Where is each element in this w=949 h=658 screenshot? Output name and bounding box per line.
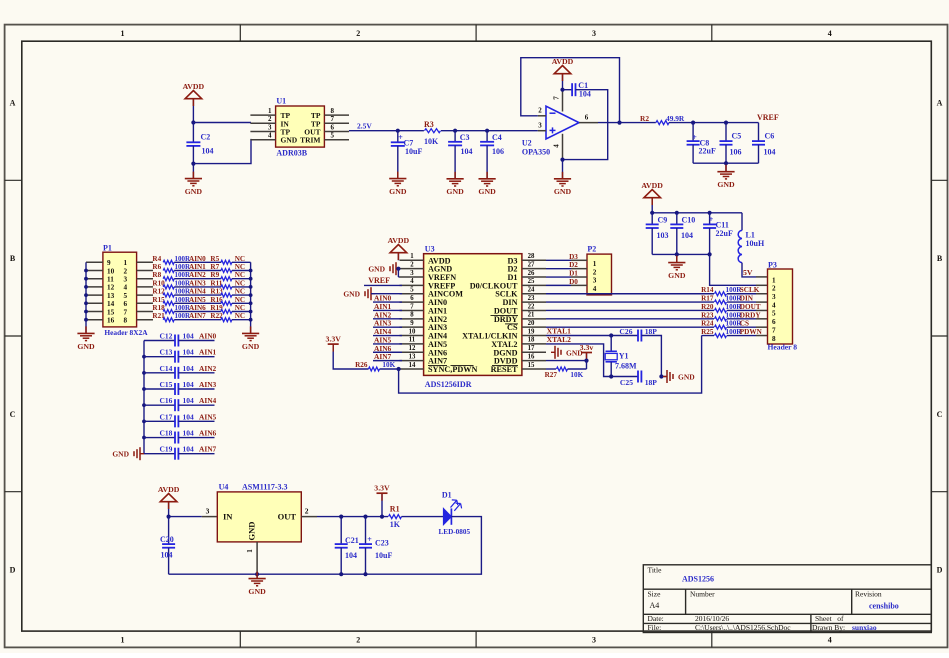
- svg-text:104: 104: [202, 147, 214, 156]
- svg-text:A: A: [10, 98, 16, 107]
- svg-text:8: 8: [772, 335, 776, 343]
- svg-text:GND: GND: [242, 342, 260, 351]
- capacitor C7 10uF: [397, 131, 399, 143]
- node U4 input junction: [167, 515, 171, 519]
- power port 3.3v at U3 DVDD: [581, 352, 592, 354]
- svg-text:C23: C23: [375, 539, 389, 548]
- svg-text:C: C: [937, 410, 943, 419]
- svg-text:Y1: Y1: [619, 351, 629, 360]
- svg-text:10K: 10K: [424, 137, 439, 146]
- U1 pin 3 (TP): [250, 131, 275, 133]
- svg-text:C19: C19: [160, 445, 173, 454]
- power port AVDD (filter): [644, 190, 661, 198]
- svg-text:ADS1256IDR: ADS1256IDR: [425, 380, 472, 389]
- svg-text:11: 11: [409, 337, 416, 344]
- P1 pin 12 / pin 4: [86, 286, 103, 288]
- svg-text:18P: 18P: [645, 327, 658, 336]
- wire U4 OUT rail: [317, 516, 388, 518]
- svg-text:2.5V: 2.5V: [357, 122, 372, 131]
- svg-text:B: B: [937, 254, 943, 263]
- U3 pin 8 (AIN2): [400, 318, 424, 320]
- U3 pin 12 (AIN6): [400, 351, 424, 353]
- wire U3 pin26 to P2 pin3: [546, 276, 571, 278]
- svg-text:Revision: Revision: [855, 590, 882, 599]
- node U2 output junction: [617, 121, 621, 125]
- svg-text:11: 11: [107, 276, 114, 284]
- ground GND below U2: [562, 160, 564, 179]
- svg-text:3.3V: 3.3V: [374, 484, 390, 493]
- svg-text:C10: C10: [682, 216, 696, 225]
- svg-text:7: 7: [410, 303, 414, 310]
- svg-text:R23: R23: [701, 311, 714, 319]
- svg-text:18: 18: [528, 337, 535, 344]
- node U2 pin4 junction: [560, 158, 564, 162]
- wire R2 to VREF rail: [669, 122, 693, 124]
- wire AIN6 to U3 pin12: [373, 351, 402, 353]
- title block: [643, 565, 931, 633]
- svg-text:XTAL2: XTAL2: [547, 335, 572, 344]
- svg-text:GND: GND: [717, 180, 735, 189]
- U3 pin 4 (VREFP): [400, 284, 424, 286]
- svg-text:10: 10: [409, 328, 416, 335]
- U3 pin 2 (AGND): [400, 268, 424, 270]
- svg-text:4: 4: [828, 636, 832, 645]
- svg-text:103: 103: [657, 231, 669, 240]
- svg-text:104: 104: [764, 148, 776, 157]
- U3 pin 5 (AINCOM): [400, 293, 424, 295]
- U3 pin 1 (AVDD): [400, 259, 424, 261]
- wire U3 pin28 to P2 pin1: [546, 259, 571, 261]
- power port AVDD (U4 input): [160, 494, 177, 502]
- svg-text:D1: D1: [442, 491, 452, 500]
- ground GND below U4: [256, 574, 258, 578]
- svg-text:GND: GND: [247, 522, 257, 541]
- op IC U1 ADR03B: [276, 106, 325, 147]
- U3 pin 24 (SCLK): [522, 293, 546, 295]
- U2 pin 3 non-inverting input: [538, 130, 546, 132]
- svg-text:R3: R3: [424, 120, 434, 129]
- svg-text:6: 6: [124, 300, 128, 308]
- svg-text:C4: C4: [492, 133, 502, 142]
- svg-text:15: 15: [107, 308, 115, 316]
- svg-text:10K: 10K: [570, 371, 583, 379]
- U3 DRDY overline: [491, 314, 519, 316]
- svg-text:C15: C15: [160, 380, 173, 389]
- ground GND at U3 pin17: [554, 346, 556, 359]
- svg-text:D2: D2: [569, 261, 578, 269]
- U3 CS overline: [505, 323, 518, 325]
- capacitor C23 10uF: [365, 517, 367, 545]
- wire AIN2 node: [174, 278, 221, 280]
- svg-text:3: 3: [593, 277, 597, 285]
- wire SYNC,PDWN bus to R25: [399, 336, 702, 394]
- node ground bus C11: [708, 252, 712, 256]
- svg-text:104: 104: [183, 348, 195, 357]
- capacitor C13 104: [144, 356, 175, 358]
- capacitor C20 104: [168, 517, 170, 545]
- wire DOUT row: [546, 309, 714, 311]
- U3 pin 13 (AIN7): [400, 360, 424, 362]
- P1 pin 13 / pin 5: [86, 294, 103, 296]
- svg-text:7: 7: [772, 326, 776, 334]
- svg-text:sunxiao: sunxiao: [852, 623, 877, 632]
- node U3 pin2 junction: [396, 267, 400, 271]
- svg-text:C6: C6: [765, 132, 775, 141]
- svg-text:C16: C16: [160, 396, 173, 405]
- svg-text:P2: P2: [587, 245, 596, 254]
- node C7 junction: [396, 129, 400, 133]
- svg-text:Sheet of: Sheet of: [815, 614, 844, 623]
- wire AIN5 node: [174, 302, 221, 304]
- svg-text:4: 4: [593, 285, 597, 293]
- svg-text:GND: GND: [678, 373, 695, 382]
- wire R20 to P3: [727, 309, 756, 311]
- svg-text:2016/10/26: 2016/10/26: [695, 614, 729, 623]
- wire AIN2 to U3 pin8: [373, 318, 402, 320]
- svg-text:AIN7: AIN7: [374, 352, 392, 361]
- ground GND at U3 pin5: [370, 287, 372, 300]
- wire P1 left ground bus: [85, 262, 87, 333]
- node C25 right junction: [659, 374, 663, 378]
- wire AIN0 to U3 pin6: [373, 301, 402, 303]
- svg-text:A4: A4: [650, 601, 660, 610]
- node ground bus junction: [724, 161, 728, 165]
- svg-text:D: D: [937, 566, 943, 575]
- P1 pin 10 / pin 2: [86, 270, 103, 272]
- svg-text:106: 106: [492, 147, 504, 156]
- svg-text:7: 7: [124, 308, 128, 316]
- svg-text:1: 1: [121, 29, 125, 38]
- svg-text:7: 7: [553, 96, 561, 100]
- svg-text:C2: C2: [201, 133, 211, 142]
- U3 pin 18 (XTAL2): [522, 343, 546, 345]
- capacitor C17 104: [144, 420, 175, 422]
- wire R1 to LED: [402, 516, 444, 518]
- capacitor C9 103: [651, 213, 653, 225]
- svg-text:P1: P1: [103, 244, 112, 253]
- P2 pin 1: [571, 259, 587, 261]
- power port 3.3V (U4 output): [377, 492, 388, 494]
- svg-text:2: 2: [772, 285, 776, 293]
- svg-text:P3: P3: [768, 260, 777, 269]
- svg-text:1: 1: [268, 107, 272, 115]
- U2 pin 7 V+: [562, 90, 564, 112]
- wire AVDD to U2 pin7: [562, 73, 564, 90]
- wire R14 to P3: [727, 293, 756, 295]
- svg-text:R14: R14: [701, 286, 714, 294]
- svg-text:Number: Number: [690, 590, 715, 599]
- svg-text:+: +: [398, 133, 403, 142]
- U4 pin 2 (OUT): [301, 516, 317, 518]
- node C21 bottom: [339, 572, 343, 576]
- svg-text:16: 16: [528, 353, 535, 360]
- P2 pin 3: [571, 276, 587, 278]
- U4 pin 1 (GND): [256, 542, 258, 574]
- svg-text:104: 104: [345, 551, 357, 560]
- node U1-IN junction: [191, 120, 195, 124]
- crystal Y1 7.68M: [610, 336, 612, 352]
- svg-text:C26: C26: [619, 327, 632, 336]
- capacitor C2: [192, 123, 194, 143]
- capacitor C16 104: [144, 404, 175, 406]
- U1 pin 2 (IN): [250, 122, 275, 124]
- node crystal bottom junction: [609, 374, 613, 378]
- capacitor C4: [486, 131, 488, 142]
- capacitor C3: [454, 131, 456, 142]
- svg-text:21: 21: [528, 312, 535, 319]
- svg-text:10uH: 10uH: [746, 239, 765, 248]
- svg-text:D0: D0: [569, 278, 578, 286]
- P1 pin 15 / pin 7: [86, 311, 103, 313]
- wire U3 pin2 to pin3: [397, 269, 399, 277]
- svg-text:AVDD: AVDD: [388, 236, 410, 245]
- svg-text:2: 2: [305, 507, 309, 516]
- svg-text:3: 3: [592, 636, 596, 645]
- svg-text:GND: GND: [668, 271, 686, 280]
- svg-text:C5: C5: [732, 132, 742, 141]
- svg-text:GND: GND: [343, 290, 360, 299]
- svg-text:49.9R: 49.9R: [666, 114, 685, 123]
- svg-text:104: 104: [183, 429, 195, 438]
- svg-text:5: 5: [410, 287, 414, 294]
- svg-text:104: 104: [681, 231, 693, 240]
- wire AIN1 node: [174, 270, 221, 272]
- node U3 pin14 junction: [397, 367, 401, 371]
- U1 pin 7 (TP): [324, 122, 349, 124]
- capacitor C25 18P: [637, 371, 639, 383]
- node DVDD junction: [584, 359, 588, 363]
- svg-text:9: 9: [107, 259, 111, 267]
- wire U2 output to R2: [598, 122, 656, 124]
- wire CS row: [546, 326, 714, 328]
- ground GND below C7: [397, 172, 399, 179]
- wire AVDD filter ground bus: [652, 253, 709, 255]
- U3 pin 22 (DOUT): [522, 309, 546, 311]
- wire R22 to bus: [232, 319, 251, 321]
- svg-text:IN: IN: [223, 512, 233, 522]
- U3 pin 15 (RESET): [522, 368, 546, 370]
- svg-text:28: 28: [528, 253, 535, 260]
- svg-text:GND: GND: [185, 187, 203, 196]
- svg-text:U2: U2: [522, 139, 532, 148]
- svg-text:ASM1117-3.3: ASM1117-3.3: [242, 483, 288, 492]
- svg-text:AIN1: AIN1: [199, 348, 217, 357]
- svg-text:AVDD: AVDD: [641, 181, 663, 190]
- power port AVDD (U3): [390, 245, 407, 253]
- wire AIN1 to U3 pin7: [373, 309, 402, 311]
- svg-text:3: 3: [124, 276, 128, 284]
- svg-text:R5: R5: [210, 255, 219, 263]
- svg-text:1: 1: [593, 260, 597, 268]
- svg-text:15: 15: [528, 362, 535, 369]
- node C2 bottom junction: [191, 162, 195, 166]
- svg-text:8: 8: [410, 312, 414, 319]
- U2 pin 4 V-: [562, 134, 564, 160]
- wire R16 to bus: [232, 302, 251, 304]
- svg-text:R26: R26: [355, 361, 368, 369]
- svg-text:13: 13: [107, 292, 115, 300]
- svg-text:104: 104: [161, 551, 173, 560]
- svg-text:106: 106: [730, 148, 742, 157]
- P2 pin 4: [571, 284, 587, 286]
- node U2 pin7 junction: [560, 88, 564, 92]
- U1 pin 4 (GND): [250, 139, 275, 141]
- svg-text:1: 1: [124, 259, 128, 267]
- svg-text:GND: GND: [478, 187, 496, 196]
- wire 3.3V drop (U4 output): [381, 493, 383, 516]
- svg-text:104: 104: [183, 396, 195, 405]
- capacitor C10 104: [676, 213, 678, 225]
- svg-text:Title: Title: [648, 566, 663, 575]
- node 3.3V junction: [380, 515, 384, 519]
- U1 pin 1 (TP): [250, 114, 275, 116]
- wire LED to return bus: [169, 517, 482, 575]
- svg-text:OPA350: OPA350: [522, 148, 550, 157]
- wire AVDD filter drop: [651, 197, 653, 213]
- svg-text:GND: GND: [77, 342, 95, 351]
- svg-text:R24: R24: [701, 320, 714, 328]
- capacitor C19 104: [144, 453, 175, 455]
- node C3 junction: [453, 129, 457, 133]
- svg-text:OUT: OUT: [278, 512, 297, 522]
- ground GND below C4: [486, 172, 488, 179]
- ground GND right of bank: [250, 326, 252, 333]
- svg-text:9: 9: [410, 320, 414, 327]
- P1 pin 14 / pin 6: [86, 302, 103, 304]
- U3 pin 26 (D1): [522, 276, 546, 278]
- svg-text:C17: C17: [160, 412, 173, 421]
- wire R27 to 3.3v node: [568, 368, 587, 370]
- wire DVDD: [546, 360, 587, 362]
- wire R9 to bus: [232, 278, 251, 280]
- U1 pin 8 (TP): [324, 114, 349, 116]
- capacitor C15 104: [144, 388, 175, 390]
- ground GND below C10: [676, 254, 678, 262]
- wire AIN3 to U3 pin9: [373, 326, 402, 328]
- svg-text:File:: File:: [648, 623, 662, 632]
- node C8 junction: [691, 121, 695, 125]
- svg-text:+: +: [709, 215, 714, 224]
- svg-text:2: 2: [356, 636, 360, 645]
- ground GND right of crystal: [661, 376, 666, 378]
- svg-text:D3: D3: [569, 253, 578, 261]
- wire U3 pin27 to P2 pin2: [546, 268, 571, 270]
- wire XTAL2 down to bottom row: [546, 344, 638, 377]
- svg-text:C21: C21: [345, 536, 359, 545]
- svg-text:104: 104: [183, 332, 195, 341]
- U2 pin 2 inverting input: [538, 115, 546, 117]
- svg-text:14: 14: [107, 300, 115, 308]
- svg-text:10: 10: [107, 267, 115, 275]
- svg-text:C: C: [10, 410, 16, 419]
- node C23 bottom: [363, 572, 367, 576]
- svg-text:4: 4: [268, 132, 272, 140]
- svg-text:AIN2: AIN2: [199, 364, 217, 373]
- svg-text:5: 5: [124, 292, 128, 300]
- svg-text:3: 3: [592, 29, 596, 38]
- wire AIN7 node: [174, 319, 221, 321]
- wire AVDD to U4: [168, 501, 170, 517]
- svg-text:4: 4: [124, 284, 128, 292]
- svg-text:AIN3: AIN3: [199, 380, 217, 389]
- svg-text:VREF: VREF: [757, 113, 779, 122]
- wire C12 bank left bus: [143, 341, 145, 454]
- svg-text:2: 2: [538, 107, 542, 115]
- svg-text:D1: D1: [569, 270, 578, 278]
- svg-text:3.3V: 3.3V: [326, 335, 342, 344]
- svg-text:19: 19: [528, 328, 535, 335]
- capacitor C12 104: [144, 340, 175, 342]
- wire AIN6 node: [174, 311, 221, 313]
- U3 pin 10 (AIN4): [400, 335, 424, 337]
- U3 pin 17 (DGND): [522, 351, 546, 353]
- svg-text:ADS1256: ADS1256: [682, 575, 714, 584]
- U3 SYNC,PDWN overline: [428, 364, 447, 366]
- svg-text:+: +: [692, 133, 697, 142]
- capacitor C11 22uF: [709, 213, 711, 225]
- svg-text:AIN0: AIN0: [199, 332, 217, 341]
- svg-text:4: 4: [410, 278, 414, 285]
- svg-text:10uF: 10uF: [375, 551, 392, 560]
- svg-text:104: 104: [183, 380, 195, 389]
- capacitor C18 104: [144, 437, 175, 439]
- svg-text:U4: U4: [219, 483, 229, 492]
- U3 pin 27 (D2): [522, 268, 546, 270]
- svg-text:R4: R4: [152, 255, 161, 263]
- wire R11 to bus: [232, 286, 251, 288]
- svg-text:8: 8: [331, 107, 335, 115]
- svg-text:1K: 1K: [390, 520, 401, 529]
- ground GND below C2: [192, 164, 194, 179]
- svg-text:R2: R2: [640, 114, 649, 123]
- svg-text:22uF: 22uF: [716, 229, 733, 238]
- svg-text:1: 1: [772, 276, 776, 284]
- svg-text:B: B: [10, 254, 16, 263]
- U3 RESET overline: [492, 364, 518, 366]
- wire DVDD to RESET pullup: [586, 361, 588, 369]
- U3 pin 11 (AIN5): [400, 343, 424, 345]
- svg-text:GND: GND: [248, 587, 266, 596]
- svg-text:C:\Users\..\..\ADS1256.SchDoc: C:\Users\..\..\ADS1256.SchDoc: [695, 623, 791, 632]
- U3 pin 20 (CS): [522, 326, 546, 328]
- svg-text:Header 8X2A: Header 8X2A: [104, 328, 148, 337]
- svg-text:GND: GND: [112, 450, 129, 459]
- svg-text:3: 3: [772, 293, 776, 301]
- wire C2 bottom to U1 pin4: [193, 139, 251, 164]
- wire feedback loop U2: [521, 58, 620, 123]
- svg-text:AIN5: AIN5: [199, 412, 217, 421]
- svg-text:R1: R1: [390, 505, 400, 514]
- svg-text:R17: R17: [701, 295, 714, 303]
- svg-text:5: 5: [331, 132, 335, 140]
- wire R25 to P3: [727, 335, 756, 337]
- svg-text:3: 3: [206, 507, 210, 516]
- wire DIN row: [546, 301, 714, 303]
- node C4 junction: [485, 129, 489, 133]
- svg-text:AIN6: AIN6: [199, 429, 217, 438]
- wire XTAL1 to crystal: [546, 335, 638, 337]
- power port 3.3V (R26 pullup): [328, 343, 339, 345]
- U3 pin 3 (VREFN): [400, 276, 424, 278]
- capacitor C5 106: [725, 123, 727, 142]
- P2 pin 2: [571, 268, 587, 270]
- wire GND to U3 pin5: [371, 293, 402, 295]
- node C21 junction: [339, 515, 343, 519]
- node ground bus C10: [675, 252, 679, 256]
- svg-text:18P: 18P: [645, 378, 658, 387]
- svg-text:LED-0805: LED-0805: [439, 528, 471, 536]
- svg-text:D: D: [10, 566, 16, 575]
